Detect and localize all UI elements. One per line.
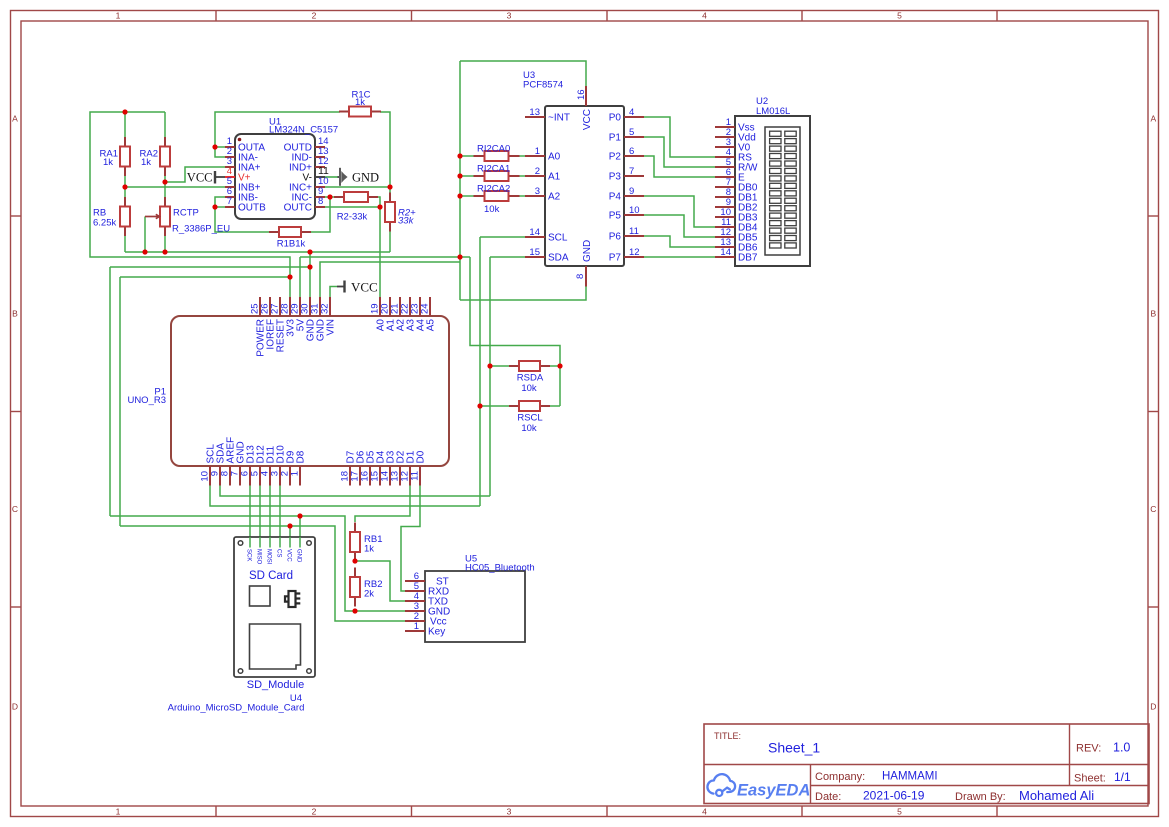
arduino P1 UNO_R3 [171,297,449,486]
svg-text:4: 4 [702,807,707,817]
svg-text:LM016L: LM016L [756,106,790,117]
node SD VCC [287,523,292,528]
svg-text:Sheet_1: Sheet_1 [768,740,820,756]
wire INC+ line [325,186,390,188]
wire RA2 bottom to RCTP [164,176,166,198]
svg-text:RI2CA2: RI2CA2 [477,184,510,195]
wire P6 to LCD DB6 [644,236,715,247]
resistor RB [120,197,130,236]
svg-text:Sheet:: Sheet: [1074,773,1106,785]
svg-text:4: 4 [629,107,634,118]
svg-text:RSDA: RSDA [517,373,544,384]
ic U3 PCF8574 [525,86,644,287]
wire 3V3 left vertical [119,277,121,526]
resistor RA2 [160,137,170,176]
resistor RI2CA0 [474,151,520,161]
wire GND pin30 up [309,252,311,297]
svg-text:8: 8 [318,196,323,207]
resistor RB2 [350,568,360,607]
node 5V U3VCC [457,254,462,259]
svg-text:9: 9 [629,186,634,197]
svg-text:VIN: VIN [326,319,337,336]
wire OUTA feedback to R1C [215,112,340,147]
svg-text:2: 2 [312,11,317,21]
wire D12 to SD MISO [259,486,261,548]
svg-text:MOSI: MOSI [265,549,271,565]
wire R1B right to INC- [311,197,330,232]
wire RCTP bottom [164,236,166,253]
svg-text:6: 6 [629,146,634,157]
node 3V3 branch [287,274,292,279]
resistor R2- [334,192,378,202]
wire SD GND drop [299,516,301,547]
svg-text:10k: 10k [521,423,537,434]
svg-text:P1: P1 [609,133,622,144]
svg-text:RCTP: RCTP [173,208,199,219]
svg-text:4: 4 [702,11,707,21]
wire RA2 top [164,112,166,138]
svg-text:5: 5 [629,127,634,138]
svg-text:Date:: Date: [815,791,841,803]
wire U3 VCC-GND vertical [459,61,461,300]
svg-text:2: 2 [535,166,540,177]
svg-text:UNO_R3: UNO_R3 [127,395,166,406]
wire D0 to HC05 RXD [401,486,420,592]
wire INA- to node [215,147,225,157]
svg-text:R2-33k: R2-33k [337,212,368,223]
svg-text:VCC: VCC [351,280,378,295]
svg-text:VCC: VCC [187,171,213,185]
svg-text:1: 1 [116,807,121,817]
ground flag at U1 pin 11 [325,168,379,186]
wire RSCL left [480,405,509,407]
svg-text:10: 10 [629,205,640,216]
wire RB bottom [124,236,126,253]
svg-text:D: D [1150,702,1156,712]
svg-text:7: 7 [227,196,232,207]
svg-text:RI2CA1: RI2CA1 [477,164,510,175]
svg-text:1: 1 [290,471,301,476]
resistor RA1 [120,137,130,176]
node INC- [327,194,332,199]
svg-text:Company:: Company: [815,771,865,783]
svg-text:SCL: SCL [548,233,568,244]
svg-text:Key: Key [428,627,445,638]
svg-text:D8: D8 [296,450,307,463]
svg-text:LM324N_C5157: LM324N_C5157 [269,125,338,136]
resistor RI2CA1 [474,171,520,181]
wire RB divider mid to HC05 TXD [355,561,405,601]
wire node RA2-INA+ [165,167,225,182]
resistor RSDA [509,361,550,371]
wire P2 to LCD E [644,156,715,177]
wire GND line to SD and HC05 [110,516,405,611]
node RB divider [352,558,357,563]
svg-text:OUTB: OUTB [238,203,266,214]
node RCTP gnd [162,249,167,254]
svg-text:1/1: 1/1 [1114,770,1131,784]
wire INB+ line [125,186,225,188]
svg-text:2021-06-19: 2021-06-19 [863,789,925,803]
svg-text:1: 1 [414,621,419,632]
resistor RI2CA2 [474,191,520,201]
svg-text:PCF8574: PCF8574 [523,80,563,91]
node RSDA left [487,363,492,368]
svg-text:CS: CS [275,549,281,557]
node INA+ [162,179,167,184]
wire R1C right to INC+ [380,112,390,193]
node OUTA [212,144,217,149]
svg-text:11: 11 [410,471,421,481]
node OUTB [212,204,217,209]
svg-text:1: 1 [116,11,121,21]
svg-text:P6: P6 [609,232,622,243]
wire U3 GND bottom route [460,287,586,301]
svg-text:A: A [1150,114,1156,124]
svg-text:SDA: SDA [548,253,569,264]
svg-text:7: 7 [629,166,634,177]
svg-text:VCC: VCC [582,109,593,130]
svg-text:RSCL: RSCL [517,413,542,424]
wire R2+ bottom [389,232,391,253]
svg-text:VCC: VCC [285,549,291,562]
wire GND branch left [110,266,310,268]
node RI2CA1 [457,173,462,178]
svg-text:14: 14 [720,247,731,258]
svg-text:1k: 1k [364,544,374,555]
svg-text:1k: 1k [103,157,113,168]
svg-text:11: 11 [629,226,639,237]
svg-text:16: 16 [576,89,587,100]
svg-text:GND: GND [352,171,379,185]
svg-text:14: 14 [529,227,540,238]
wire OUTB stub to node [215,206,225,208]
svg-text:SCK: SCK [245,549,251,561]
node wiper gnd [142,249,147,254]
wire RSDA right [550,365,560,367]
svg-text:Arduino_MicroSD_Module_Card: Arduino_MicroSD_Module_Card [168,703,305,714]
node SD GND [297,513,302,518]
svg-text:2: 2 [312,807,317,817]
svg-text:P4: P4 [609,192,622,203]
op-amp U1 LM324N_C5157 [225,134,329,219]
svg-text:5: 5 [897,807,902,817]
wire RI2CA0 to A0 [460,155,474,157]
node RB2 GND [352,608,357,613]
node INC+ [387,184,392,189]
wire INB- to OUTB node [215,197,269,232]
svg-text:TITLE:: TITLE: [714,731,741,741]
wire 5V pin29 up [299,257,301,297]
svg-text:8: 8 [575,274,586,279]
svg-text:10k: 10k [521,383,537,394]
svg-text:P5: P5 [609,211,622,222]
node pullup common [557,363,562,368]
svg-text:HAMMAMI: HAMMAMI [882,771,938,783]
wire P7 to LCD DB7 [644,256,715,258]
potentiometer RCTP [145,197,170,236]
wire RA1 top [124,112,126,138]
wire D10 to SD CS [279,486,281,548]
svg-text:A: A [12,114,18,124]
wire VIN to VCC flag [330,287,337,298]
svg-text:P3: P3 [609,172,622,183]
wire SDA from arduino [220,486,490,497]
VCC flag at arduino VIN [337,280,378,295]
wire GND rail [125,251,390,253]
svg-text:D: D [12,702,18,712]
wire SDA vertical [489,257,491,496]
easyeda logo [707,774,810,799]
resistor RSCL [509,401,550,411]
wire 3V3 line to SD and HC05 [120,526,405,621]
svg-text:B: B [12,309,18,319]
svg-text:R1B1k: R1B1k [277,239,306,250]
svg-text:Drawn By:: Drawn By: [955,791,1006,803]
node RI2CA2 [457,193,462,198]
svg-text:13: 13 [529,107,540,118]
wire 3V3 top rail to RA dividers [90,112,290,297]
VCC flag at U1 pin 4 [187,171,225,185]
resistor RB1 [350,523,360,562]
svg-text:EasyEDA: EasyEDA [737,782,810,800]
wire SDA to U3 [490,256,525,258]
svg-text:A5: A5 [426,319,437,332]
node INB+ [122,184,127,189]
svg-text:MISO: MISO [255,549,261,565]
svg-text:A1: A1 [548,172,561,183]
wire GND pin31 line [320,262,460,297]
wire RSDA left [490,365,509,367]
svg-text:12: 12 [629,247,640,258]
svg-text:SD_Module: SD_Module [247,679,304,691]
wire 5V rail [300,256,470,258]
svg-text:10k: 10k [484,204,500,215]
svg-text:REV:: REV: [1076,743,1101,755]
title block [704,724,1149,804]
svg-text:5: 5 [897,11,902,21]
wire U3 VCC top route [460,61,586,86]
svg-text:SD Card: SD Card [249,570,293,582]
wire P0 to LCD RS [644,117,715,157]
svg-text:3: 3 [507,807,512,817]
resistor R1C [339,107,381,117]
svg-text:1: 1 [535,146,540,157]
svg-text:RI2CA0: RI2CA0 [477,144,510,155]
svg-text:C: C [1150,504,1156,514]
svg-text:OUTC: OUTC [284,203,312,214]
sd card module U4 [234,537,315,677]
wire D11 to SD MOSI [269,486,271,548]
wire SCL vertical [479,237,481,506]
svg-text:P0: P0 [609,113,622,124]
wire P4 to LCD DB4 [644,196,715,227]
wire D1 to RB1 [355,486,410,523]
svg-text:GND: GND [295,549,301,563]
svg-text:6.25k: 6.25k [93,218,116,229]
svg-text:A2: A2 [548,192,561,203]
resistor R2+ [385,193,395,232]
wire R2- right down to OUTC and A0 [378,197,380,297]
svg-text:A0: A0 [548,152,561,163]
node RI2CA0 [457,153,462,158]
svg-text:HC05_Bluetooth: HC05_Bluetooth [465,563,535,574]
svg-text:32: 32 [320,303,331,314]
svg-text:P2: P2 [609,152,622,163]
wire GND left vertical [109,267,111,516]
wire RI2CA2 to A2 [460,195,474,197]
wire OUTC line [325,206,380,208]
wire RI2CA1 to A1 [460,175,474,177]
svg-text:B: B [1150,309,1156,319]
svg-text:P7: P7 [609,253,622,264]
wire 5V to pullup commons [470,257,560,406]
lcd U2 LM016L [715,116,810,266]
svg-text:DB7: DB7 [738,253,758,264]
svg-text:2k: 2k [364,589,374,600]
svg-text:1k: 1k [141,157,151,168]
wire INC- to R2- [330,196,334,198]
node OUTC [377,204,382,209]
svg-text:3: 3 [507,11,512,21]
wire RSCL right [550,405,560,407]
svg-text:~INT: ~INT [548,113,570,124]
wire SCL from arduino [210,486,480,507]
svg-text:D0: D0 [416,450,427,463]
svg-text:GND: GND [582,240,593,262]
svg-text:3: 3 [535,186,540,197]
resistor R1B [269,227,311,237]
svg-text:Mohamed Ali: Mohamed Ali [1019,788,1094,803]
wire SD VCC drop [289,526,291,547]
wire RA1 bottom to INB+ node [124,176,126,198]
node GND branch [307,264,312,269]
node GND rail pin30 [307,249,312,254]
svg-text:24: 24 [420,303,431,314]
wire 3V3 branch left [120,276,290,278]
wire P1 to LCD R/W [644,137,715,167]
svg-text:1.0: 1.0 [1113,741,1130,755]
bluetooth module U5 HC05 [405,571,525,642]
svg-text:R_3386P_EU: R_3386P_EU [172,224,230,235]
svg-text:C: C [12,504,18,514]
svg-text:15: 15 [529,247,540,258]
wire D13 to SD SCK [249,486,251,548]
wire RCTP wiper to GND rail [144,217,146,253]
svg-text:1k: 1k [355,97,365,108]
wire P5 to LCD DB5 [644,215,715,237]
node RSCL left [477,403,482,408]
wire SCL to U3 [480,236,525,238]
svg-text:33k: 33k [398,216,415,227]
node RA1 top [122,109,127,114]
